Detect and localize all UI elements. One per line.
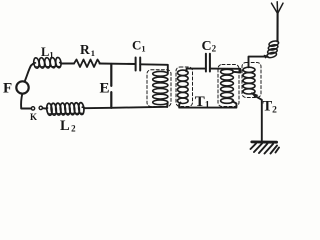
- svg-text:K: K: [30, 112, 37, 122]
- key contact left: [31, 107, 34, 110]
- capacitor C2 plate right: [209, 54, 211, 72]
- antenna loading coil: [266, 40, 279, 58]
- generator F circle: [16, 81, 28, 93]
- inductor L1: [33, 57, 62, 68]
- spark gap E lower tip: [110, 91, 112, 93]
- svg-text:T2: T2: [263, 99, 278, 116]
- key contact right: [39, 106, 42, 109]
- transformer T2 primary dashed box: [218, 65, 239, 107]
- transformer T2 secondary dashed box: [242, 63, 261, 98]
- capacitor C1 plate left: [135, 58, 137, 71]
- wire T1 primary to bottom bus: [166, 103, 168, 107]
- spark gap E upper tip: [110, 85, 112, 87]
- wire antenna coil to T2 secondary: [249, 57, 268, 68]
- antenna prong left: [272, 3, 278, 13]
- resistor R1: [74, 60, 100, 68]
- wire from F top to L1: [25, 64, 34, 82]
- wire C2 to T2 primary: [210, 69, 240, 73]
- wire L1 to R1: [62, 63, 75, 65]
- tap arrow on T2 coil: [253, 93, 258, 97]
- transformer T2 secondary coil: [243, 67, 255, 94]
- spark gap E upper electrode: [110, 64, 112, 86]
- wire C1 to T1 primary: [140, 64, 168, 73]
- svg-text:R1: R1: [80, 42, 95, 58]
- wire L2 to key K: [43, 107, 47, 109]
- antenna prong right: [278, 3, 283, 13]
- svg-text:C1: C1: [132, 38, 146, 54]
- svg-text:E: E: [100, 81, 110, 97]
- transformer T1 primary dashed box: [147, 70, 171, 107]
- svg-text:L2: L2: [60, 118, 76, 134]
- wire T1 secondary top to C2: [186, 69, 205, 72]
- transformer T1 secondary coil: [178, 70, 189, 103]
- tap arrow on antenna coil: [264, 55, 268, 58]
- wire R1 to C1 with node at E: [100, 63, 136, 66]
- spark gap E lower electrode: [110, 92, 112, 108]
- svg-text:F: F: [3, 81, 12, 97]
- wire T2 to ground: [252, 93, 262, 140]
- antenna mast: [276, 13, 278, 42]
- secondary loop bottom bus: [179, 101, 236, 107]
- svg-text:L1: L1: [41, 45, 54, 60]
- capacitor C2 plate left: [205, 54, 207, 72]
- ground hatching: [251, 144, 280, 154]
- transformer T2 primary coil: [221, 69, 234, 103]
- ground bar: [252, 140, 277, 143]
- inductor L2: [46, 102, 85, 115]
- bottom bus primary loop: [85, 107, 167, 108]
- transformer T1 primary coil: [153, 71, 168, 104]
- wire K to F bottom: [21, 94, 31, 109]
- transformer T1 secondary dashed box: [176, 67, 193, 107]
- antenna prong middle: [276, 2, 278, 14]
- svg-text:C2: C2: [202, 39, 217, 54]
- capacitor C1 plate right: [139, 58, 141, 71]
